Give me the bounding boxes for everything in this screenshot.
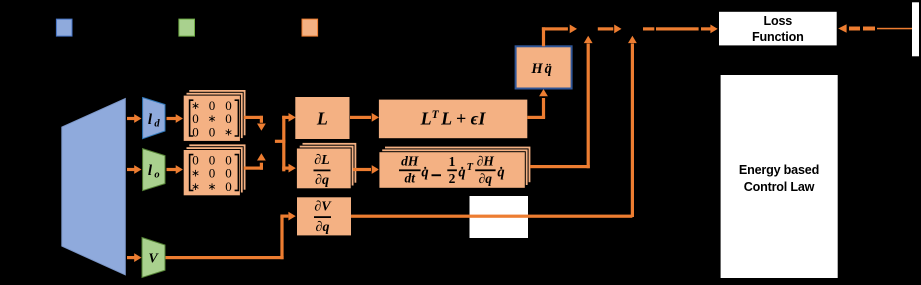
- head l_o trapezoid: [143, 149, 165, 191]
- svg-text:0: 0: [209, 98, 216, 113]
- svg-text:Hq̈: Hq̈: [530, 61, 552, 77]
- arrow: splitter to dL/dq box: [282, 164, 296, 173]
- arrow: encoder to l_o head: [127, 165, 142, 174]
- svg-text:0: 0: [209, 166, 216, 181]
- dV/dq box: [297, 197, 351, 235]
- svg-text:Loss: Loss: [764, 14, 793, 28]
- svg-text:∂q: ∂q: [315, 173, 329, 188]
- wire: lower matrix elbow up-arrow: [244, 153, 266, 170]
- svg-text:0: 0: [192, 152, 199, 167]
- wire: diag matrix elbow down-arrow: [244, 116, 266, 131]
- energy based control law box: [721, 75, 838, 278]
- legend swatch orange: [302, 19, 318, 36]
- svg-text:Control Law: Control Law: [744, 180, 815, 194]
- legend swatch blue: [56, 19, 72, 36]
- svg-text:∂L: ∂L: [314, 153, 329, 168]
- svg-text:∂V: ∂V: [314, 200, 332, 215]
- white kinetic-energy box: [470, 196, 529, 238]
- svg-text:∂q: ∂q: [479, 171, 493, 186]
- svg-text:dt: dt: [404, 171, 416, 186]
- svg-text:0: 0: [225, 111, 232, 126]
- LTL+eI box: [379, 100, 527, 139]
- arrow: l_d to mass matrix stack: [167, 114, 184, 123]
- svg-text:1: 1: [449, 154, 456, 169]
- wire: dH output up into top chain: [530, 36, 593, 168]
- wire: V elbow up into dV/dq: [166, 212, 296, 260]
- svg-text:∗: ∗: [191, 182, 200, 193]
- arrow: encoder to V head: [127, 253, 142, 262]
- svg-text:LTL + ϵI: LTL + ϵI: [420, 108, 487, 128]
- legend swatch green: [179, 19, 195, 36]
- svg-text:q̇: q̇: [458, 165, 465, 181]
- arrow: splitter to L box: [282, 113, 296, 122]
- svg-text:dH: dH: [401, 154, 419, 169]
- svg-text:Energy based: Energy based: [739, 163, 819, 177]
- head l_d trapezoid: [143, 98, 165, 139]
- arrow: encoder to l_d head: [127, 114, 142, 123]
- svg-text:o: o: [154, 170, 159, 181]
- target value white bar: [912, 2, 919, 56]
- arrow: L box to LTL+eI box: [350, 113, 379, 122]
- Hqdd box: [516, 46, 572, 88]
- svg-text:2: 2: [449, 171, 456, 186]
- dashed arrow segment 3 into loss function: [643, 25, 718, 34]
- diagonal matrix stack: [183, 90, 246, 142]
- svg-text:0: 0: [209, 124, 216, 139]
- svg-text:∗: ∗: [224, 127, 233, 138]
- wire: Hqdd top elbow right arrow: [542, 25, 577, 47]
- wire: LTL box elbow to Hqdd: [527, 89, 548, 119]
- svg-text:∂H: ∂H: [477, 154, 495, 169]
- dH/dt formula box stack: [379, 146, 531, 188]
- svg-text:d: d: [154, 119, 160, 130]
- svg-text:0: 0: [225, 179, 232, 194]
- wire: dV output up into top chain: [628, 36, 637, 217]
- splitter bracket vertical: [282, 116, 285, 172]
- encoder trapezoid (shared network): [62, 99, 126, 275]
- arrow: dL/dq to dH box: [353, 165, 379, 174]
- wire: dV/dq long output over white box: [351, 215, 632, 218]
- svg-text:∂q: ∂q: [316, 220, 330, 235]
- wire: merge stub into splitter: [275, 140, 286, 143]
- svg-text:∗: ∗: [208, 182, 217, 193]
- svg-text:q̇: q̇: [421, 165, 428, 181]
- dashed arrow from target bar into loss function: [838, 24, 912, 32]
- svg-text:Function: Function: [752, 30, 804, 44]
- svg-text:L: L: [316, 108, 328, 128]
- dashed arrow segment 2 (top chain): [598, 25, 622, 34]
- svg-text:q̇: q̇: [497, 165, 504, 181]
- svg-text:0: 0: [192, 124, 199, 139]
- svg-text:T: T: [467, 162, 474, 173]
- arrow: l_o to lower-tri matrix stack: [167, 165, 184, 174]
- lower-triangular matrix stack: [183, 144, 246, 196]
- loss function box: [719, 12, 837, 46]
- svg-text:∗: ∗: [191, 169, 200, 180]
- head V trapezoid: [142, 238, 165, 278]
- L box: [295, 97, 349, 139]
- dL/dq box stack: [296, 142, 356, 188]
